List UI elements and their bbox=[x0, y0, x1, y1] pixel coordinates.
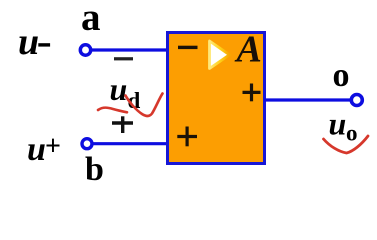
svg-text:u: u bbox=[110, 71, 128, 107]
output wire bbox=[264, 98, 352, 101]
svg-text:A: A bbox=[235, 29, 262, 71]
op-amp U1 body bbox=[168, 33, 265, 164]
red annotation arc under u_o bbox=[324, 136, 369, 153]
svg-text:o: o bbox=[346, 121, 358, 146]
wire b (non-inverting input wire) bbox=[92, 142, 166, 145]
wire a (inverting input wire) bbox=[90, 48, 166, 51]
terminal b bbox=[82, 139, 92, 149]
inverting input minus sign (inside U1) bbox=[178, 46, 198, 49]
output plus polarity sign (inside U1) bbox=[243, 84, 261, 102]
svg-text:u: u bbox=[18, 21, 39, 63]
svg-text:b: b bbox=[85, 151, 104, 188]
svg-text:u: u bbox=[27, 131, 46, 168]
svg-text:+: + bbox=[45, 131, 61, 162]
non-inverting input plus sign (inside U1) bbox=[177, 127, 197, 147]
svg-text:u: u bbox=[329, 106, 347, 142]
red handwritten annotation under u_d bbox=[98, 108, 127, 113]
terminal o bbox=[351, 95, 362, 106]
minus polarity mark under wire a bbox=[114, 57, 133, 60]
plus polarity mark under u_d bbox=[112, 116, 133, 133]
terminal a bbox=[80, 45, 90, 55]
svg-text:a: a bbox=[81, 0, 101, 39]
svg-text:o: o bbox=[333, 57, 350, 94]
